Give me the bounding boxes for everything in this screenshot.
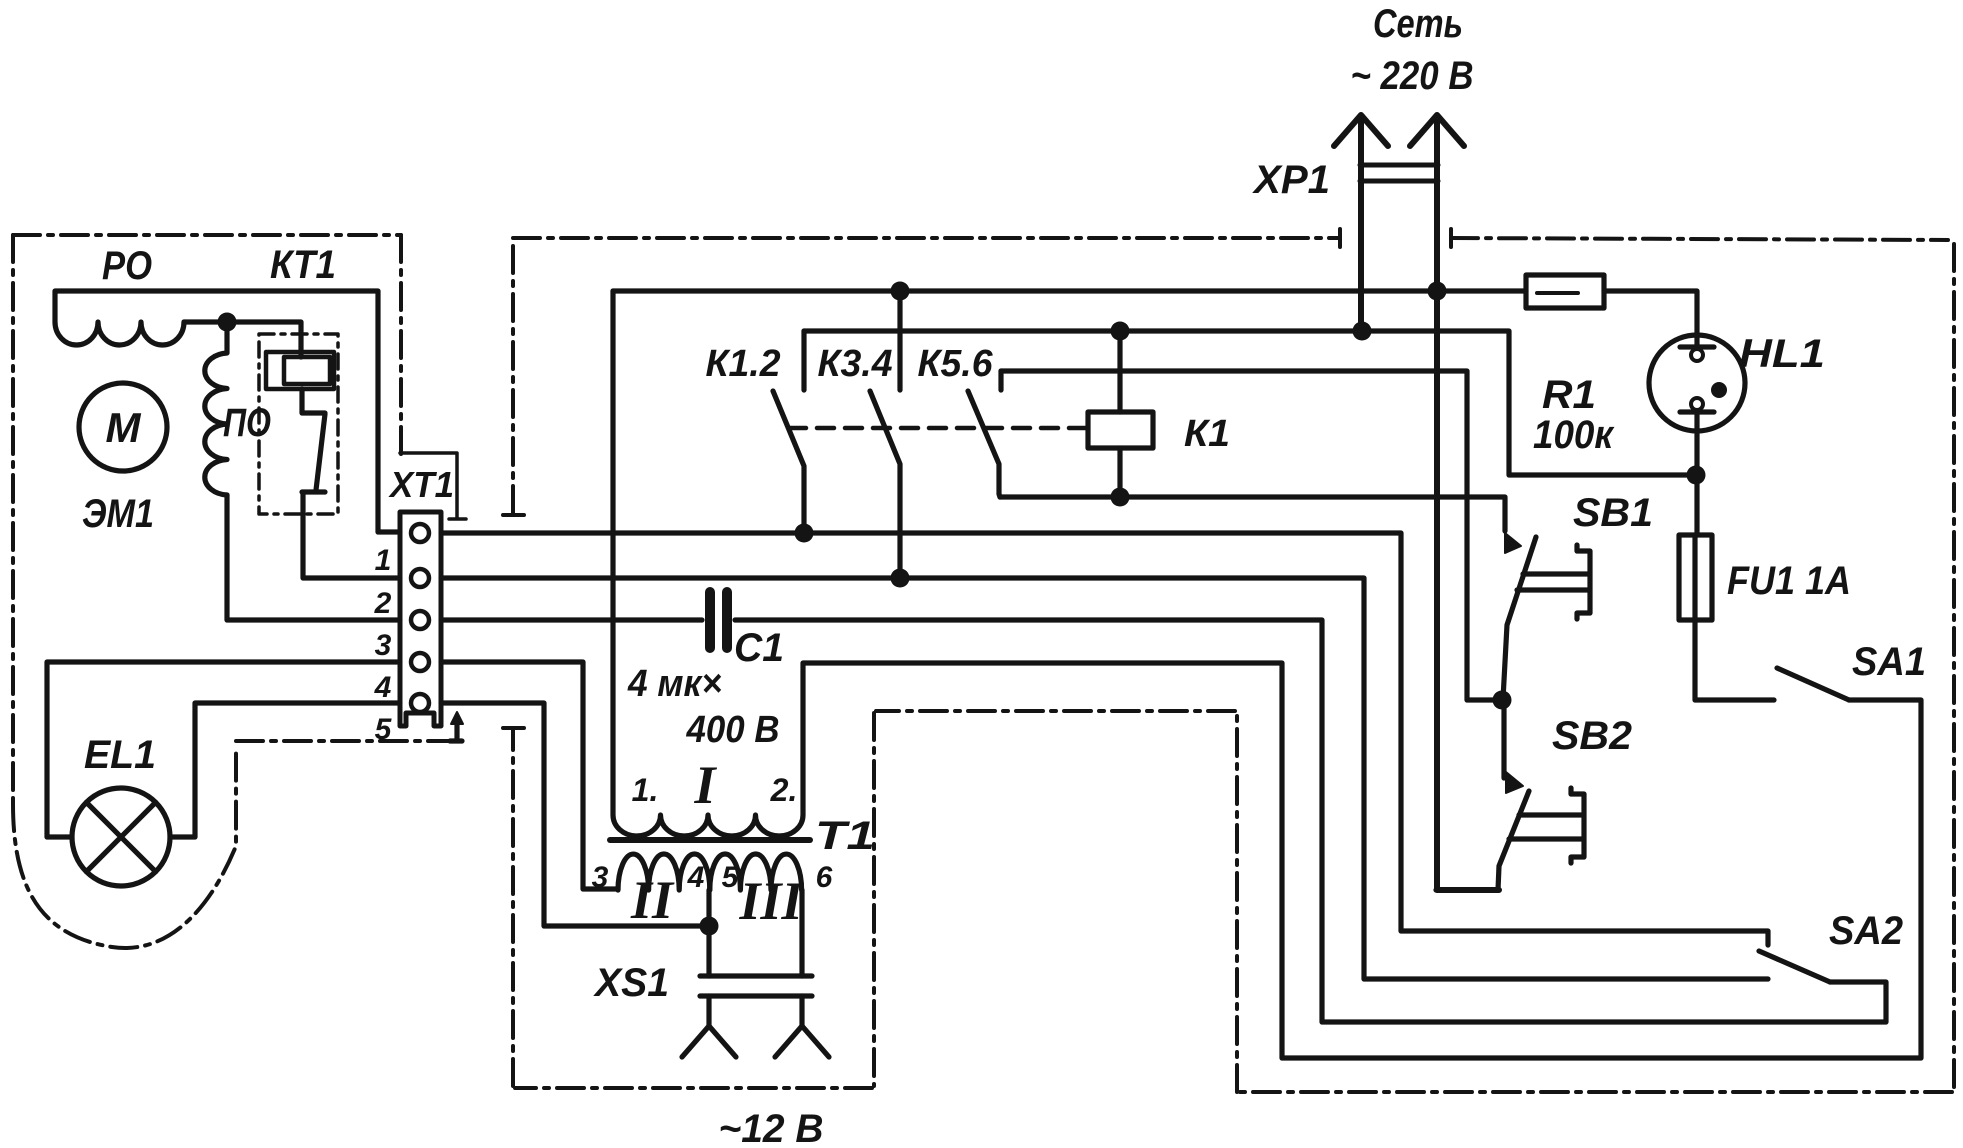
node HL1/R1 junction [1687,466,1706,485]
wire pin5 to T1 center tap [441,703,709,926]
socket XS1 [700,976,812,996]
relay coil K1 [1088,412,1153,448]
wire РО to node [184,322,301,357]
button SB1 [1505,533,1521,553]
left enclosure dash-dot border [13,235,450,948]
dash-dot box around КТ1 contact [259,334,338,514]
thermal element КТ1 (heater) [266,352,334,389]
wire R1 to HL1 [1604,291,1697,334]
svg-text:II: II [630,870,675,930]
node K3.4/pin2 [891,569,910,588]
wire line A (top bus) [613,288,1526,293]
svg-text:ЭМ1: ЭМ1 [82,492,154,536]
node SB1/SB2/line C [1493,691,1512,710]
transformer secondary winding II [618,854,710,890]
svg-text:КТ1: КТ1 [270,243,336,287]
svg-text:К1: К1 [1184,413,1230,455]
svg-text:FU1 1A: FU1 1A [1727,559,1851,603]
right enclosure dash-dot border [513,238,1954,1092]
lamp EL1 [72,788,170,886]
svg-text:HL1: HL1 [1739,332,1825,376]
svg-text:100к: 100к [1533,413,1615,457]
wire FU1 to SA1 [1695,620,1774,700]
node (center tap) [700,917,719,936]
fuse FU1 [1679,535,1712,620]
border gap ticks at XP1 [1340,229,1451,247]
svg-text:4 мк×: 4 мк× [627,663,722,705]
svg-text:3: 3 [592,861,609,894]
winding РО [55,322,184,345]
border interruption T-bars near XT1 [503,515,524,728]
transformer T1 primary winding I [613,291,1921,1058]
wire EL1 left to pin4 line [47,662,400,837]
svg-text:3: 3 [375,629,392,662]
svg-text:SB2: SB2 [1552,714,1632,758]
switch SA2 [1759,951,1830,982]
wire HL1 bottom to FU1 [1694,431,1699,535]
svg-text:6: 6 [816,861,833,894]
svg-text:2: 2 [374,587,392,620]
switch SA1 [1777,668,1849,700]
node K1 top [1111,322,1130,341]
capacitor C1 [710,592,727,648]
svg-text:С1: С1 [734,626,784,670]
wire line C (K5.6 to SB1) [1001,371,1502,700]
svg-text:I: I [693,755,717,815]
svg-text:XS1: XS1 [593,961,669,1005]
relay contact K5.6 [968,371,1001,497]
neon lamp HL1 [1649,335,1745,431]
svg-text:К3.4: К3.4 [818,343,893,385]
svg-text:РО: РО [102,244,152,288]
T1 pin6 lead to XS1 [799,890,804,976]
wire line D (K5.6/K1 to SB1) [1000,497,1505,531]
svg-text:4: 4 [374,671,392,704]
svg-text:SB1: SB1 [1573,491,1653,535]
T1 center lead [706,890,711,976]
node K1.2/pin1 [795,524,814,543]
relay contact K3.4 [870,291,900,578]
svg-text:М: М [106,404,142,451]
svg-text:III: III [738,871,804,931]
svg-text:2.: 2. [770,772,798,808]
svg-text:EL1: EL1 [84,733,156,777]
wire pin2 line [441,578,1768,979]
mechanical linkage (dashed) [789,426,1086,431]
svg-text:R1: R1 [1542,373,1596,417]
wire EL1 right to pin5 line [170,703,400,837]
svg-text:5: 5 [375,713,393,746]
svg-text:~ 220 В: ~ 220 В [1351,54,1474,98]
relay contact K1.2 [773,331,804,533]
svg-text:ХР1: ХР1 [1252,158,1330,202]
svg-text:1: 1 [375,544,392,577]
svg-text:Т1: Т1 [815,814,875,858]
contact КТ1 [302,389,400,578]
node XP1 right / line A [1428,282,1447,301]
node XP1 left / line B [1353,322,1372,341]
chassis arrow at XT1 [450,712,463,741]
node K3.4/lineA [891,282,910,301]
XT1 label bracket [400,453,466,519]
svg-text:1.: 1. [632,772,659,808]
resistor R1 [1526,275,1604,308]
svg-text:К5.6: К5.6 [918,343,994,385]
svg-text:К1.2: К1.2 [706,343,781,385]
transformer core [610,837,810,843]
wire pin3 line to C1 [441,617,702,622]
wire line B [804,331,1696,475]
XT1 pin contacts [411,524,429,712]
wire pin1 line [441,533,1768,945]
svg-text:ХТ1: ХТ1 [388,464,454,505]
transformer secondary winding III [710,854,802,890]
svg-text:4: 4 [687,861,705,894]
svg-text:5: 5 [722,861,740,894]
wire ПО to XT1 pin3 [227,495,400,620]
svg-text:SA2: SA2 [1829,909,1903,953]
wire C1 to SA2 loop [735,620,1886,1022]
motor ЭМ1 [79,383,167,471]
winding ПО [205,322,227,495]
svg-text:~12 В: ~12 В [719,1107,824,1148]
terminal strip XT1 [400,512,441,726]
svg-text:Сеть: Сеть [1373,2,1463,46]
button SB2 [1501,700,1506,778]
node K1 bottom [1111,488,1130,507]
wire РО top (КТ1 wire) [55,291,400,532]
wire pin4 to T1 winding II [441,662,618,889]
plug XP1 [1334,115,1499,890]
svg-text:ПО: ПО [223,401,271,445]
node (junction РО/ПО) [218,313,237,332]
svg-text:SA1: SA1 [1852,640,1926,684]
svg-text:400 В: 400 В [686,709,780,751]
